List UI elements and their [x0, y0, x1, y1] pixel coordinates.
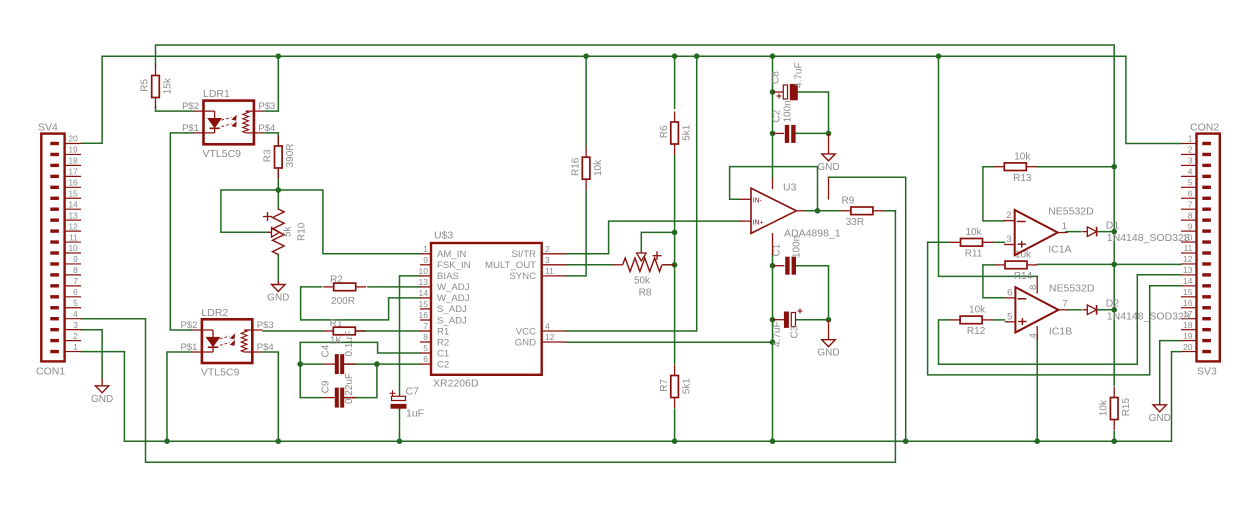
wire XR pin4 VCC to V+ rail [566, 56, 696, 331]
wire R14 right / D-net to SV3 pin12 [1037, 263, 1181, 265]
wire R6 to R7 divider node [674, 155, 676, 365]
wire bottom rail V- [124, 352, 1181, 442]
diode D1 [1082, 227, 1096, 237]
svg-text:4: 4 [1028, 333, 1039, 338]
IC1B power pin 4 [1028, 326, 1039, 340]
svg-text:D1: D1 [1106, 219, 1120, 231]
wire LDR1 P$3 to V+ rail [265, 56, 278, 111]
junction [1111, 164, 1117, 170]
ground GND below R10 [272, 281, 285, 292]
wire R12 to IC1B pin5 [993, 319, 1005, 321]
wire C3 right to GND [796, 319, 828, 321]
capacitor C1 [785, 257, 796, 275]
svg-text:GND: GND [91, 394, 113, 405]
wire R14 to IC1B pin6 [983, 265, 1005, 298]
svg-text:S_ADJ: S_ADJ [437, 315, 467, 326]
svg-text:50k: 50k [634, 276, 651, 287]
svg-text:R10: R10 [297, 222, 308, 241]
wire LDR2 P$3 to R1 [263, 330, 323, 332]
svg-text:15k: 15k [162, 77, 173, 94]
svg-text:7: 7 [1062, 298, 1067, 309]
wire R10 wiper loop [221, 190, 278, 232]
svg-text:0.1uF: 0.1uF [344, 331, 355, 357]
ground GND at C3/C1 [822, 320, 835, 347]
svg-text:1N4148_SOD323: 1N4148_SOD323 [1107, 310, 1190, 322]
svg-text:P$2: P$2 [180, 320, 197, 331]
wire C7 to V- rail [399, 410, 401, 442]
resistor R6 [671, 112, 679, 155]
svg-text:1uF: 1uF [406, 408, 424, 420]
svg-text:3: 3 [1006, 234, 1011, 245]
junction [164, 438, 170, 444]
svg-text:1: 1 [423, 244, 428, 254]
wire D1 to D-net [1096, 231, 1114, 233]
wire R16 top to V+ rail [585, 56, 587, 146]
wire SV4 pin1 to V- rail [81, 351, 124, 353]
svg-text:10k: 10k [1098, 399, 1109, 416]
ground GND at SV4 pin3 [95, 378, 108, 393]
svg-text:2: 2 [545, 244, 550, 254]
svg-text:11: 11 [545, 266, 554, 276]
junction [1034, 438, 1040, 444]
svg-text:3: 3 [73, 320, 78, 330]
svg-text:R16: R16 [570, 157, 581, 176]
svg-text:13: 13 [419, 277, 429, 287]
wire R2 right to XR pin13 [368, 286, 420, 288]
potentiometer R8 [613, 251, 675, 272]
svg-text:GND: GND [1149, 413, 1171, 424]
wire C1 left lead [773, 265, 785, 267]
svg-text:5k1: 5k1 [681, 378, 692, 395]
op-amp IC1B [1005, 287, 1069, 332]
potentiometer R10 [263, 209, 284, 255]
svg-text:C2: C2 [437, 359, 449, 370]
svg-text:1: 1 [1188, 134, 1193, 144]
svg-text:12: 12 [68, 221, 78, 231]
wire node to XR pin1 AM_IN [278, 190, 420, 254]
svg-text:C4: C4 [321, 344, 332, 357]
junction [276, 187, 282, 193]
svg-text:LDR2: LDR2 [201, 307, 228, 319]
svg-text:5: 5 [1188, 178, 1193, 188]
svg-text:P$4: P$4 [257, 342, 274, 353]
junction [1111, 438, 1117, 444]
junction [1111, 262, 1117, 268]
wire C8 right to GND node [798, 92, 829, 133]
svg-text:CON2: CON2 [1190, 122, 1219, 134]
wire C1 right to GND [796, 266, 829, 320]
capacitor C7 [390, 390, 407, 409]
svg-text:14: 14 [419, 288, 429, 298]
wire V+ to U3 V+ / C8 / C2 [772, 56, 774, 177]
wire IC1B out to D2 [1068, 309, 1081, 311]
junction [374, 361, 380, 367]
svg-text:2: 2 [1188, 145, 1193, 155]
wire LDR2 P$1 to V- rail [167, 352, 192, 441]
resistor R14 [995, 261, 1038, 269]
svg-text:ADA4898_1: ADA4898_1 [784, 228, 841, 240]
svg-text:1N4148_SOD323: 1N4148_SOD323 [1107, 232, 1190, 244]
junction [672, 262, 678, 268]
svg-text:GND: GND [817, 348, 839, 359]
junction [1111, 229, 1117, 235]
wire C4 left to XR pin5 [300, 342, 420, 364]
svg-text:12: 12 [545, 332, 555, 342]
wire LDR2 P$4 down to V- rail [263, 352, 278, 441]
svg-text:R1: R1 [330, 318, 343, 329]
junction [903, 438, 909, 444]
resistor R5 [152, 65, 160, 108]
svg-text:15: 15 [419, 299, 429, 309]
svg-text:16: 16 [68, 178, 78, 188]
wire R7 to V- rail [674, 409, 676, 441]
junction [826, 131, 832, 137]
capacitor C8 [773, 84, 798, 100]
wire R8 right to divider node [664, 264, 675, 266]
resistor R15 [1110, 387, 1118, 430]
wire XR pin2 SI/TR to U3 IN+ [566, 221, 740, 254]
resistor R7 [671, 365, 679, 408]
svg-text:33R: 33R [846, 217, 864, 228]
svg-text:11: 11 [69, 232, 78, 242]
svg-text:R9: R9 [842, 196, 855, 207]
wire C2 right to GND [796, 132, 829, 134]
wire R15 to V- rail [1113, 431, 1115, 441]
svg-text:GND: GND [267, 293, 289, 304]
svg-text:17: 17 [68, 167, 78, 177]
junction [672, 53, 678, 59]
svg-text:15: 15 [1183, 287, 1193, 297]
svg-text:SV4: SV4 [38, 122, 58, 134]
wire C9 parallel loop [300, 364, 322, 398]
svg-text:4.7uF: 4.7uF [772, 321, 783, 347]
svg-text:BIAS: BIAS [437, 271, 459, 282]
optocoupler LDR1 [193, 101, 264, 145]
svg-text:W_ADJ: W_ADJ [437, 293, 470, 304]
svg-text:MULT_OUT: MULT_OUT [485, 260, 536, 271]
svg-text:8: 8 [423, 332, 428, 342]
wire V+ to R6 [674, 56, 676, 108]
IC U$3 pin numbers [419, 244, 555, 364]
junction [397, 438, 403, 444]
wire C4 right to XR pin6 [345, 363, 420, 365]
svg-text:R5: R5 [140, 78, 151, 91]
svg-text:6: 6 [1007, 287, 1012, 298]
svg-text:P$3: P$3 [257, 320, 274, 331]
svg-text:VTL5C9: VTL5C9 [203, 148, 242, 160]
svg-text:IC1A: IC1A [1048, 243, 1071, 255]
svg-text:R15: R15 [1121, 398, 1132, 417]
junction [672, 438, 678, 444]
resistor R13 [994, 163, 1037, 171]
wire D2 to D-net [1096, 309, 1114, 311]
wire LDR1 P$4 to R3 [265, 133, 278, 147]
svg-text:16: 16 [1183, 298, 1193, 308]
wire XR pin10 BIAS to C7 [400, 276, 421, 396]
wire R10 bottom to GND [277, 255, 279, 282]
svg-text:390R: 390R [285, 143, 296, 167]
connector SV3 pin numbers [1183, 134, 1193, 352]
junction [936, 53, 942, 59]
svg-text:FSK_IN: FSK_IN [437, 260, 471, 271]
connector SV4 pin numbers [68, 134, 78, 352]
svg-text:11: 11 [1184, 243, 1193, 253]
svg-text:2: 2 [1006, 210, 1011, 221]
resistor R9 [840, 207, 883, 215]
svg-text:VCC: VCC [516, 326, 536, 337]
svg-text:18: 18 [68, 156, 78, 166]
wire U3 feedback loop [730, 167, 818, 211]
junction [770, 53, 776, 59]
wire U3 disable net [829, 177, 906, 441]
svg-text:NE5532D: NE5532D [1048, 205, 1094, 217]
svg-text:CON1: CON1 [36, 366, 65, 378]
svg-text:R7: R7 [659, 378, 670, 391]
wire C9 right loop [345, 364, 377, 398]
svg-text:13: 13 [68, 210, 78, 220]
svg-text:C9: C9 [321, 380, 332, 393]
svg-text:R6: R6 [659, 125, 670, 138]
wire R13 right to D-net [1037, 166, 1115, 168]
wire LDR1 P$2 from R5 [156, 107, 194, 112]
capacitor C2 [785, 125, 796, 143]
wire R3 to R10 node [277, 167, 279, 209]
junction [297, 361, 303, 367]
svg-text:5k1: 5k1 [681, 124, 692, 141]
svg-text:R2: R2 [330, 274, 343, 285]
wire SV3 pin19 to GND [1160, 341, 1181, 403]
junction [770, 339, 776, 345]
svg-text:3: 3 [545, 255, 550, 265]
svg-text:XR2206D: XR2206D [433, 378, 479, 390]
junction [815, 208, 821, 214]
svg-text:6: 6 [73, 287, 78, 297]
svg-text:15: 15 [68, 188, 78, 198]
connector SV3/CON2 [1181, 134, 1220, 362]
svg-text:6: 6 [423, 354, 428, 364]
svg-text:P$2: P$2 [182, 101, 199, 112]
svg-text:20: 20 [1183, 342, 1193, 352]
svg-text:5: 5 [423, 343, 428, 353]
svg-text:20: 20 [68, 134, 78, 144]
svg-text:19: 19 [68, 145, 78, 155]
wire R1 right to XR pin7 [357, 330, 421, 332]
wire R9 to output rail [883, 210, 895, 212]
junction [770, 438, 776, 444]
svg-text:P$1: P$1 [180, 342, 197, 353]
wire V+ top rail B [102, 56, 1181, 143]
junction [1111, 307, 1117, 313]
svg-text:GND: GND [515, 337, 536, 348]
resistor R3 [275, 136, 283, 179]
svg-text:IN+: IN+ [753, 219, 764, 226]
junction [694, 53, 700, 59]
resistor R2 [323, 283, 366, 291]
svg-text:SV3: SV3 [1197, 366, 1217, 378]
junction [826, 317, 832, 323]
wire XR pin3 MULT_OUT to R8 [566, 264, 612, 266]
svg-text:U$3: U$3 [434, 230, 453, 242]
svg-text:NE5532D: NE5532D [1049, 283, 1095, 295]
svg-text:9: 9 [73, 254, 78, 264]
svg-text:GND: GND [817, 162, 839, 173]
capacitor C4 [323, 354, 356, 374]
svg-text:5: 5 [73, 298, 78, 308]
svg-text:0.22uF: 0.22uF [344, 373, 355, 404]
svg-text:C8: C8 [771, 71, 782, 84]
svg-text:100n: 100n [783, 100, 794, 122]
ground GND at SV3 pin19 [1153, 403, 1166, 412]
wire D-net vertical [1113, 167, 1115, 386]
wire R8 wiper to divider node [641, 232, 674, 251]
wire XR pin12 GND to V- column [566, 341, 772, 343]
svg-text:5k: 5k [283, 225, 294, 237]
svg-text:13: 13 [1183, 265, 1193, 275]
svg-text:R3: R3 [263, 149, 274, 162]
svg-text:4: 4 [1188, 167, 1193, 177]
svg-text:LDR1: LDR1 [203, 88, 230, 100]
wire C2 left lead [773, 132, 785, 134]
wire IC1A out to D1 [1066, 231, 1081, 233]
svg-text:AM_IN: AM_IN [437, 249, 466, 260]
svg-text:16: 16 [419, 310, 429, 320]
svg-text:10k: 10k [965, 227, 982, 238]
svg-text:IC1B: IC1B [1049, 326, 1072, 338]
resistor R16 [582, 147, 590, 190]
diode D2 [1082, 305, 1096, 315]
svg-text:4: 4 [73, 309, 78, 319]
svg-text:C3: C3 [790, 325, 801, 338]
junction [276, 438, 282, 444]
svg-text:7: 7 [423, 321, 428, 331]
svg-text:1: 1 [73, 342, 78, 352]
svg-text:IN-: IN- [753, 198, 763, 205]
svg-text:P$3: P$3 [258, 101, 275, 112]
svg-text:200R: 200R [331, 296, 355, 307]
svg-text:10k: 10k [593, 159, 604, 176]
wire IC1B pin4 to V- rail [1036, 335, 1038, 441]
svg-text:10k: 10k [969, 305, 986, 316]
svg-text:10k: 10k [1014, 151, 1031, 162]
wire R16 bottom to XR pin11 SYNC [566, 190, 586, 276]
wire R11 to SV3 pin14 [928, 242, 1181, 375]
junction [770, 131, 776, 137]
svg-text:C7: C7 [406, 386, 420, 398]
wire SV4 pin20 to V+ rail [81, 142, 102, 144]
wire R11 to IC1A pin3 [993, 241, 1005, 243]
svg-text:1K: 1K [330, 336, 343, 347]
svg-text:1: 1 [1062, 221, 1067, 232]
optocoupler LDR2 [192, 319, 263, 363]
wire output return rail (R9 to SV4 pin4) [81, 211, 895, 462]
junction [770, 89, 776, 95]
svg-text:9: 9 [1188, 221, 1193, 231]
wire C4/C9 row to XR pin6 [300, 363, 322, 365]
svg-text:R1: R1 [437, 326, 449, 337]
svg-text:7: 7 [73, 276, 78, 286]
junction [770, 317, 776, 323]
wire LDR1 P$1 to LDR2 P$2 [170, 133, 193, 330]
wire R2 left to XR pin14 [301, 287, 420, 320]
svg-text:S_ADJ: S_ADJ [437, 304, 467, 315]
svg-text:VTL5C9: VTL5C9 [201, 367, 240, 379]
wire U3 V- / C1 / C3 / GND column [772, 255, 774, 441]
wire R12 to SV3 pin13 [939, 275, 1182, 365]
wire SV4 pin3 to GND [81, 330, 102, 378]
IC U$3 XR2206D [420, 243, 566, 375]
junction [583, 53, 589, 59]
IC1B power pin 8 [1028, 276, 1039, 293]
svg-text:C1: C1 [437, 348, 449, 359]
svg-text:R12: R12 [967, 326, 986, 337]
svg-text:C1: C1 [772, 243, 783, 256]
wire top rail A [156, 45, 1115, 167]
svg-text:R8: R8 [639, 288, 652, 299]
svg-text:SYNC: SYNC [509, 271, 536, 282]
svg-text:9: 9 [423, 255, 428, 265]
svg-text:W_ADJ: W_ADJ [437, 282, 470, 293]
junction [672, 230, 678, 236]
wire V+ drop to IC1B pin8 [939, 56, 1038, 276]
svg-text:2: 2 [73, 331, 78, 341]
capacitor C3 [773, 309, 803, 328]
svg-text:10: 10 [419, 266, 429, 276]
resistor R1 [323, 327, 366, 335]
svg-text:D2: D2 [1106, 298, 1120, 310]
ground GND at C2/C8 [822, 133, 835, 161]
svg-text:U3: U3 [783, 182, 797, 194]
resistor R11 [950, 239, 993, 247]
wire top rail to R5/R15 net [155, 46, 157, 66]
resistor R12 [950, 316, 993, 324]
svg-text:SI/TR: SI/TR [511, 249, 536, 260]
svg-text:4: 4 [545, 321, 550, 331]
svg-text:3: 3 [1188, 156, 1193, 166]
svg-text:14: 14 [1183, 276, 1193, 286]
svg-text:P$1: P$1 [182, 123, 199, 134]
op-amp IC1A [1004, 210, 1068, 255]
svg-text:6: 6 [1188, 188, 1193, 198]
junction [276, 53, 282, 59]
svg-text:C2: C2 [772, 109, 783, 122]
svg-text:8: 8 [1028, 285, 1039, 290]
svg-text:14: 14 [68, 199, 78, 209]
capacitor C9 [323, 388, 356, 408]
wire U3 output [806, 210, 841, 212]
svg-text:R11: R11 [965, 249, 983, 260]
op-amp U3 [740, 177, 829, 255]
svg-text:8: 8 [1188, 210, 1193, 220]
junction [770, 263, 776, 269]
svg-text:P$4: P$4 [258, 123, 275, 134]
wire R13 feedback to IC1A pin2 [983, 167, 1005, 221]
svg-text:10: 10 [68, 243, 78, 253]
svg-text:12: 12 [1183, 254, 1193, 264]
svg-text:5: 5 [1007, 311, 1012, 322]
svg-text:R14: R14 [1014, 271, 1033, 282]
svg-text:7: 7 [1188, 199, 1193, 209]
svg-text:R2: R2 [437, 337, 449, 348]
IC U$3 pin names [437, 249, 536, 370]
connector SV4/CON1 [41, 134, 81, 362]
svg-text:19: 19 [1183, 331, 1193, 341]
svg-text:4.7uF: 4.7uF [794, 62, 805, 88]
svg-text:8: 8 [73, 265, 78, 275]
svg-text:R13: R13 [1013, 173, 1032, 184]
